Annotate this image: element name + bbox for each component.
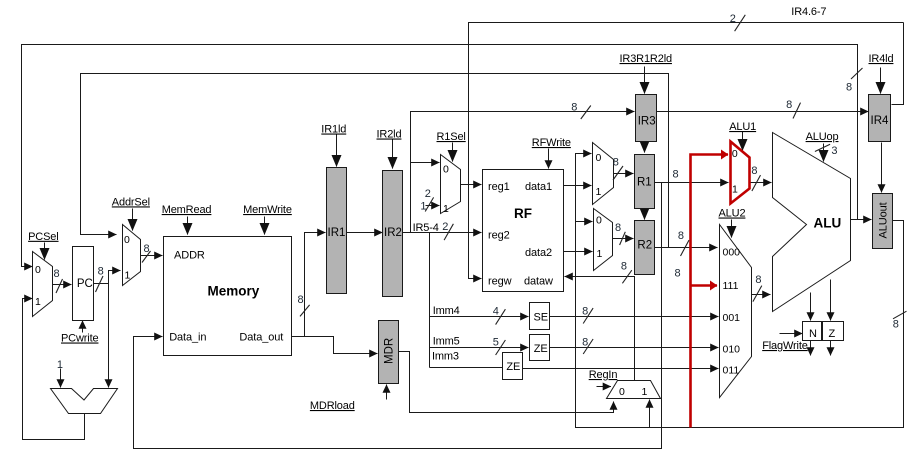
- wire R1Sel control arrow: [452, 143, 454, 162]
- slash PCSel output bus width: [56, 279, 63, 293]
- svg-text:8: 8: [786, 99, 792, 111]
- svg-text:R1: R1: [637, 177, 652, 189]
- wire IR4 right side link to IR4.6-7: [892, 23, 904, 105]
- svg-text:RegIn: RegIn: [589, 369, 618, 381]
- svg-text:PC: PC: [77, 278, 93, 290]
- svg-text:0: 0: [124, 234, 130, 246]
- svg-text:2: 2: [730, 13, 736, 25]
- wire RFWrite control into RF: [548, 149, 550, 169]
- slash ALU2 output bus width: [753, 286, 762, 302]
- wire N flag output: [810, 341, 812, 356]
- svg-text:RF: RF: [514, 206, 532, 221]
- svg-text:ZE: ZE: [506, 361, 520, 373]
- mux B before R2: [594, 209, 613, 271]
- wire RegIn mux output to RF dataw: [565, 277, 635, 381]
- wire ZE output to ALU2 mux input 010: [550, 347, 719, 349]
- svg-text:reg2: reg2: [488, 230, 510, 242]
- flag register N: [803, 322, 822, 341]
- red highlighted wire to ALU2 mux input 111: [691, 284, 718, 287]
- slash ALUout loop bus width: [893, 311, 907, 319]
- wire IR1ld control arrow: [336, 135, 338, 167]
- register IR1: [327, 168, 347, 294]
- wire R1 output to ALU1 mux input 1: [655, 182, 729, 184]
- svg-text:1: 1: [35, 296, 41, 308]
- wire ALU1 mux output to ALU: [750, 182, 772, 184]
- slash IR5-4 bus width: [444, 224, 453, 240]
- svg-text:ALUout: ALUout: [878, 202, 890, 238]
- svg-text:IR4ld: IR4ld: [869, 53, 894, 65]
- svg-text:Data_in: Data_in: [169, 332, 206, 344]
- wire RF data2 to muxB input 1: [564, 251, 593, 253]
- wire AddrSel control arrow: [132, 209, 134, 231]
- wire muxB output to R2: [613, 238, 634, 240]
- mux ALU2: [720, 225, 752, 398]
- svg-text:0: 0: [596, 152, 602, 164]
- adder PC+1: [51, 389, 118, 414]
- svg-text:8: 8: [675, 268, 681, 280]
- mux A before R1: [593, 143, 614, 205]
- svg-text:8: 8: [582, 306, 588, 318]
- slash muxA output bus width: [613, 166, 623, 180]
- slash Imm4 bus width: [496, 309, 506, 324]
- wire ALU flag N input: [810, 293, 812, 321]
- svg-text:8: 8: [615, 222, 621, 234]
- svg-text:8: 8: [613, 156, 619, 168]
- wire MDR output to RegIn mux input 0: [399, 352, 614, 413]
- svg-text:ALUop: ALUop: [806, 131, 839, 143]
- slash ZE output bus width: [583, 339, 593, 354]
- wire PCSel control arrow: [44, 243, 46, 260]
- svg-text:2: 2: [442, 221, 448, 233]
- svg-text:010: 010: [723, 343, 741, 355]
- wire R2 to AddrSel input 0: [81, 74, 669, 248]
- wire PCwrite control into PC: [82, 321, 84, 333]
- svg-text:R1Sel: R1Sel: [437, 131, 466, 143]
- svg-text:MemRead: MemRead: [162, 204, 212, 216]
- svg-text:4: 4: [493, 306, 499, 318]
- wire R1 store path to Memory Data_in: [134, 183, 662, 449]
- svg-text:IR3R1R2ld: IR3R1R2ld: [620, 53, 672, 65]
- wire Data_out branch up into IR1: [305, 233, 326, 337]
- register IR2: [383, 171, 403, 297]
- wire PC output branch down to adder: [108, 284, 110, 388]
- memory block: [164, 237, 292, 356]
- svg-text:8: 8: [571, 102, 577, 114]
- wire MDRload control into MDR: [386, 385, 388, 400]
- svg-text:8: 8: [582, 336, 588, 348]
- wire IR3 to R1: [644, 143, 646, 153]
- register PC: [73, 247, 94, 321]
- svg-text:0: 0: [619, 386, 625, 398]
- svg-text:AddrSel: AddrSel: [112, 196, 150, 208]
- wire constant 1 into adder: [60, 369, 62, 388]
- wire writeback branch to muxB input 0: [576, 221, 593, 223]
- mux RegIn: [607, 381, 661, 399]
- zero extend ZE (Imm3): [503, 353, 523, 380]
- ALU: [773, 133, 851, 312]
- wire muxA output to R1: [614, 173, 634, 175]
- svg-text:8: 8: [846, 82, 852, 94]
- svg-text:Data_out: Data_out: [239, 332, 283, 344]
- wire constant 1 into R1Sel input 1: [426, 205, 440, 207]
- wire R1Sel mux output to RF reg1: [461, 184, 482, 186]
- wire ALUop control arrow: [823, 144, 825, 162]
- svg-text:0: 0: [443, 164, 449, 176]
- svg-text:1: 1: [597, 248, 603, 260]
- svg-text:IR4.6-7: IR4.6-7: [791, 6, 826, 18]
- svg-text:8: 8: [621, 260, 627, 272]
- wire PCSel mux output to PC: [53, 284, 72, 286]
- svg-text:3: 3: [831, 145, 837, 157]
- register R1: [635, 155, 655, 209]
- svg-text:2: 2: [425, 188, 431, 200]
- svg-text:regw: regw: [488, 276, 512, 288]
- sign extend SE: [530, 303, 550, 330]
- svg-text:Imm5: Imm5: [433, 336, 460, 348]
- svg-text:0: 0: [596, 215, 602, 227]
- svg-text:1: 1: [125, 270, 131, 282]
- wire IR2ld control arrow: [392, 140, 394, 169]
- svg-text:8: 8: [755, 274, 761, 286]
- svg-text:data1: data1: [525, 181, 552, 193]
- svg-text:MemWrite: MemWrite: [243, 204, 292, 216]
- svg-text:1: 1: [57, 359, 63, 371]
- slash IR3 output bus width: [793, 103, 801, 119]
- wire IR4ld control into IR4: [880, 68, 882, 94]
- svg-text:1: 1: [443, 203, 449, 215]
- svg-text:8: 8: [54, 268, 60, 280]
- svg-text:111: 111: [723, 280, 739, 292]
- slash Imm5 bus width: [496, 340, 506, 355]
- wire R1 to R2: [644, 209, 646, 220]
- wire branch to R1Sel input 0: [411, 162, 440, 164]
- wire SE output to ALU2 mux input 001: [550, 316, 719, 318]
- wire Z flag output: [830, 341, 832, 356]
- register file RF: [483, 170, 564, 292]
- svg-text:Z: Z: [829, 328, 836, 340]
- svg-text:Memory: Memory: [208, 284, 260, 299]
- mux ALU1 (red highlighted): [731, 142, 750, 204]
- wire ALU2 control arrow: [731, 220, 733, 238]
- svg-text:ZE: ZE: [534, 343, 548, 355]
- svg-text:1: 1: [732, 184, 738, 196]
- wire RF data1 to muxA input 1: [564, 185, 592, 187]
- wire MemWrite control arrow: [264, 217, 266, 235]
- wire IR3 output to IR4: [657, 111, 869, 113]
- wire IR1 to IR2: [347, 232, 383, 234]
- slash IR4.6-7 bus width: [735, 15, 746, 31]
- svg-text:ALU: ALU: [814, 216, 842, 231]
- wire PC output to AddrSel input 1: [94, 271, 121, 284]
- svg-text:1: 1: [596, 186, 602, 198]
- svg-text:IR1ld: IR1ld: [321, 124, 346, 136]
- svg-text:R2: R2: [637, 240, 652, 252]
- svg-text:IR3: IR3: [638, 115, 656, 127]
- wire ALU1 control arrow: [742, 132, 744, 151]
- svg-text:0: 0: [732, 148, 738, 160]
- svg-text:dataw: dataw: [524, 276, 553, 288]
- wire AddrSel mux output to Memory ADDR: [141, 255, 163, 257]
- slash PC output bus width: [96, 276, 104, 292]
- slash SE output bus width: [583, 308, 593, 323]
- svg-text:1: 1: [420, 200, 426, 212]
- svg-text:8: 8: [144, 243, 150, 255]
- wire Memory Data_out to MDR: [292, 337, 378, 354]
- wire ALUout writeback bus to muxA input 0: [576, 154, 904, 428]
- slash dataw bus width: [622, 270, 631, 283]
- red highlighted bypass wire from writeback bus to ALU1 mux input 0: [691, 155, 729, 428]
- svg-text:RFWrite: RFWrite: [532, 137, 571, 149]
- svg-text:001: 001: [723, 312, 741, 324]
- svg-text:IR4: IR4: [871, 115, 890, 127]
- svg-text:IR2: IR2: [384, 227, 402, 239]
- wire IR2 output IR5-4 to RF reg2: [403, 232, 482, 234]
- svg-text:PCSel: PCSel: [28, 231, 58, 243]
- slash AddrSel output bus width: [142, 251, 151, 263]
- wire Imm4 into SE: [430, 316, 529, 318]
- svg-text:IR1: IR1: [328, 227, 346, 239]
- wire Imm trunk from IR2 output: [429, 233, 431, 368]
- wire Imm3 into ZE2: [430, 367, 503, 369]
- svg-text:8: 8: [678, 230, 684, 242]
- wire ZE2 output to ALU2 mux input 011: [522, 368, 719, 370]
- wire IR2 output up into IR3: [411, 112, 635, 233]
- register MDR: [379, 321, 399, 384]
- svg-text:8: 8: [98, 266, 104, 278]
- slash IR3 input bus width: [581, 106, 591, 120]
- slash ALU-to-PC bus width: [851, 68, 863, 79]
- svg-text:8: 8: [673, 169, 679, 181]
- svg-text:reg1: reg1: [488, 181, 510, 193]
- mux R1Sel: [441, 155, 461, 214]
- svg-text:Imm3: Imm3: [432, 350, 459, 362]
- flag register Z: [823, 322, 844, 341]
- svg-text:011: 011: [723, 364, 740, 376]
- svg-text:IR5-4: IR5-4: [413, 222, 439, 234]
- slash ALU1 mux output bus width: [752, 175, 761, 191]
- svg-text:MDR: MDR: [384, 338, 396, 364]
- slash R1Sel constant bus width: [425, 197, 433, 211]
- svg-text:data2: data2: [525, 247, 552, 259]
- svg-text:ALU1: ALU1: [729, 121, 756, 133]
- mux PCSel: [33, 252, 53, 317]
- wire MemRead control arrow: [187, 217, 189, 235]
- wire IR4 down to ALUout: [881, 143, 883, 193]
- wire ALU result to PCSel input 0: [22, 45, 858, 267]
- wire FlagWrite control arrow: [780, 333, 803, 335]
- wire adder output loop to PCSel input 1: [23, 299, 85, 440]
- svg-text:ALU2: ALU2: [719, 208, 746, 220]
- svg-text:ADDR: ADDR: [174, 250, 205, 262]
- slash R2 output bus width: [681, 240, 690, 256]
- wire writeback branch to RegIn mux input 1: [649, 400, 651, 428]
- wire ALU2 mux output to ALU: [752, 294, 771, 296]
- zero extend ZE (Imm5): [530, 335, 550, 361]
- svg-text:MDRload: MDRload: [310, 400, 355, 412]
- svg-text:000: 000: [723, 246, 741, 258]
- register IR4: [869, 95, 891, 142]
- register ALUout: [873, 194, 893, 249]
- slash muxB output bus width: [620, 232, 626, 245]
- svg-text:Imm4: Imm4: [433, 305, 460, 317]
- slash Data_out to IR1 bus width: [300, 305, 310, 317]
- wire IR4.6-7 bus: IR4 top loop to regw: [469, 23, 904, 279]
- svg-text:1: 1: [642, 386, 648, 398]
- register R2: [635, 221, 655, 275]
- svg-text:FlagWrite: FlagWrite: [762, 340, 808, 352]
- wire ALU output into ALUout register: [851, 219, 872, 221]
- svg-text:IR2ld: IR2ld: [377, 129, 402, 141]
- svg-text:8: 8: [893, 319, 899, 331]
- svg-text:5: 5: [493, 336, 499, 348]
- wire IR3R1R2ld control into IR3: [644, 67, 646, 94]
- wire ALU flag Z input: [830, 280, 832, 321]
- svg-text:N: N: [809, 328, 817, 340]
- wire RegIn control arrow: [597, 386, 612, 388]
- register IR3: [636, 95, 657, 142]
- svg-text:8: 8: [751, 165, 757, 177]
- svg-text:SE: SE: [534, 312, 548, 324]
- wire Imm5 into ZE: [430, 347, 529, 349]
- svg-text:PCwrite: PCwrite: [61, 333, 98, 345]
- wire R2 output to ALU2 mux input 000: [655, 247, 718, 249]
- svg-text:8: 8: [298, 294, 304, 306]
- mux AddrSel: [123, 225, 141, 286]
- svg-text:0: 0: [35, 264, 41, 276]
- slash ALUop bus width: [815, 144, 830, 151]
